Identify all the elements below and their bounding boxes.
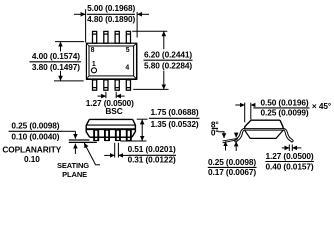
- svg-text:1: 1: [92, 61, 96, 68]
- dimension 5.00/4.80 left arrow: [74, 13, 85, 15]
- dimension 1.75/1.35 up arrow: [141, 120, 143, 131]
- lead foot angle line lower: [223, 140, 238, 143]
- svg-text:0.50 (0.0196): 0.50 (0.0196): [260, 98, 308, 108]
- dimension 1.27 BSC right arrow: [116, 95, 124, 97]
- dimension 6.20/5.80 extension line bottom: [133, 88, 168, 90]
- 8/0 degrees leader: [218, 132, 224, 133]
- svg-text:1.35 (0.0532): 1.35 (0.0532): [150, 119, 198, 129]
- dimension 0.51/0.31 tick left: [114, 143, 116, 158]
- dimension 6.20/5.80 extension line top: [132, 30, 167, 32]
- dimension 0.50x45 tick left: [244, 103, 246, 123]
- svg-text:3.80 (0.1497): 3.80 (0.1497): [32, 62, 80, 72]
- svg-text:0.10: 0.10: [24, 154, 40, 164]
- dimension 4.00/3.80 extension line bottom: [54, 80, 84, 82]
- dimension 0.51/0.31 tick right: [117, 143, 119, 158]
- dimension 4.00/3.80 up arrow: [60, 42, 62, 52]
- end view parting line lower: [244, 129, 285, 131]
- svg-text:0.31 (0.0122): 0.31 (0.0122): [128, 154, 176, 164]
- pin 1 index circle: [92, 68, 97, 73]
- seating plane line right segment: [120, 140, 146, 142]
- bottom lead 1: [93, 80, 97, 90]
- seating plane line left segment: [69, 141, 97, 143]
- dimension 0.50x45 left arrow: [235, 104, 244, 106]
- end view package body upper outline: [245, 120, 283, 128]
- svg-text:8: 8: [91, 47, 95, 54]
- dimension 0.51/0.31 right arrow: [118, 154, 129, 156]
- dimension 4.00/3.80 label: [30, 51, 82, 72]
- svg-text:0.25 (0.0099): 0.25 (0.0099): [260, 108, 308, 118]
- side view body bottom edge: [90, 136, 132, 138]
- dimension 0.50/0.25 x45 label: [253, 98, 331, 118]
- coplanarity down arrow: [74, 131, 76, 138]
- svg-text:6.20 (0.2441): 6.20 (0.2441): [144, 50, 192, 60]
- package body outer bottom thick edge: [86, 78, 137, 80]
- dimension 1.27 BSC left arrow: [98, 95, 106, 97]
- svg-text:× 45°: × 45°: [312, 101, 331, 111]
- lead angle down arrow 2: [235, 133, 237, 138]
- package body inner outline: [89, 46, 134, 76]
- svg-text:0.17 (0.0067): 0.17 (0.0067): [208, 167, 256, 177]
- side view package body: [86, 119, 135, 137]
- svg-text:BSC: BSC: [105, 106, 122, 116]
- top lead 5: [126, 31, 130, 43]
- side view body parting line: [86, 128, 136, 130]
- seating plane leader tick: [95, 164, 100, 166]
- dimension 1.75/1.35 top tick: [137, 118, 148, 120]
- bevel corner top-left: [86, 43, 89, 46]
- bevel corner top-right: [134, 43, 137, 46]
- dimension 4.00/3.80 down arrow: [60, 71, 62, 81]
- dimension 5.00/4.80 extension line right: [136, 12, 138, 38]
- bevel corner bottom-left: [86, 76, 89, 79]
- svg-text:4.00 (0.1574): 4.00 (0.1574): [32, 51, 80, 61]
- side view lead 3: [115, 130, 120, 140]
- lead angle up arrow 1: [225, 141, 227, 150]
- svg-text:0.51 (0.0201): 0.51 (0.0201): [128, 144, 176, 154]
- svg-text:5.00 (0.1968): 5.00 (0.1968): [87, 3, 135, 13]
- seating plane label: [57, 161, 89, 179]
- svg-text:4.80 (0.1890): 4.80 (0.1890): [87, 14, 135, 24]
- dimension 5.00/4.80 label: [87, 3, 136, 24]
- svg-text:4: 4: [125, 65, 129, 72]
- side view body shoulder line: [86, 124, 135, 126]
- svg-text:1.27 (0.0500): 1.27 (0.0500): [265, 151, 313, 161]
- dimension 1.75/1.35 label: [149, 107, 200, 129]
- svg-text:0.25 (0.0098): 0.25 (0.0098): [208, 157, 256, 167]
- bottom lead 3: [115, 80, 119, 90]
- dimension 1.27/0.40 label: [265, 151, 314, 171]
- svg-text:5.80 (0.2284): 5.80 (0.2284): [144, 60, 192, 70]
- dimension 0.51/0.31 label: [128, 144, 176, 164]
- dimension 8/0 degrees label: [211, 120, 219, 138]
- top lead 8: [93, 31, 97, 43]
- svg-text:SEATING: SEATING: [57, 161, 89, 170]
- dimension 1.27 BSC tick left: [105, 92, 107, 98]
- lead angle down arrow 1: [223, 133, 225, 138]
- svg-text:0.10 (0.0040): 0.10 (0.0040): [11, 131, 59, 141]
- svg-text:0°: 0°: [211, 127, 219, 137]
- end view package body lower outline: [245, 130, 283, 138]
- dimension 0.51/0.31 left arrow: [104, 154, 115, 156]
- bottom lead 2: [104, 80, 108, 90]
- coplanarity upper line: [69, 139, 90, 141]
- bottom lead 4: [126, 80, 130, 90]
- top lead 6: [115, 31, 119, 43]
- dimension 1.27/0.40 tick left: [288, 145, 290, 152]
- svg-text:0.40 (0.0157): 0.40 (0.0157): [265, 161, 313, 171]
- dimension 0.50x45 right arrow: [251, 104, 254, 106]
- side view lead 4: [126, 130, 131, 140]
- dimension 1.27 BSC tick right: [115, 92, 117, 98]
- dimension 6.20/5.80 up arrow: [163, 32, 165, 50]
- svg-text:PLANE: PLANE: [62, 170, 87, 179]
- dimension 4.00/3.80 extension line top: [55, 41, 84, 43]
- side view lead 1: [94, 130, 99, 140]
- dimension 0.25/0.17 label: [208, 157, 257, 177]
- coplanarity up arrow: [74, 144, 76, 154]
- dimension 0.50x45 tick right: [250, 103, 252, 120]
- dimension 1.27/0.40 right arrow: [292, 147, 301, 149]
- bevel corner bottom-right: [134, 76, 137, 79]
- dimension 1.27/0.40 left arrow: [282, 147, 290, 149]
- dimension 1.27/0.40 tick right: [291, 145, 293, 152]
- side view lead 2: [104, 130, 109, 140]
- top lead 7: [104, 31, 108, 43]
- dimension 0.25/0.10 label: [9, 121, 63, 142]
- lead foot angle line upper: [223, 138, 239, 141]
- svg-text:COPLANARITY: COPLANARITY: [2, 144, 61, 154]
- dimension 5.00/4.80 extension line left: [85, 9, 87, 42]
- end view left lead: [235, 128, 245, 142]
- coplanarity leader from label: [63, 130, 76, 132]
- svg-text:1.75 (0.0688): 1.75 (0.0688): [150, 107, 198, 117]
- svg-text:5: 5: [126, 47, 130, 54]
- package body outer right thick edge: [136, 43, 138, 79]
- lead angle up arrow 2: [235, 142, 237, 151]
- dimension 6.20/5.80 label: [144, 50, 193, 71]
- dimension 1.75/1.35 down arrow: [141, 131, 143, 141]
- end view right lead: [283, 128, 293, 142]
- dimension 1.27 BSC label: [86, 98, 134, 116]
- package body outer outline: [86, 43, 136, 79]
- svg-text:0.25 (0.0098): 0.25 (0.0098): [11, 121, 59, 131]
- dimension 6.20/5.80 down arrow: [163, 71, 165, 90]
- seating plane leader arrow: [84, 143, 95, 165]
- end view parting line upper: [244, 128, 285, 130]
- dimension 5.00/4.80 right arrow: [137, 13, 149, 15]
